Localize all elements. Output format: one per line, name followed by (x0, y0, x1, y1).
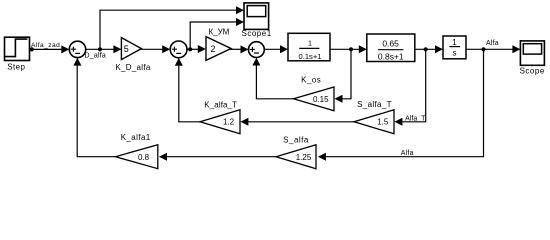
wire S3 to transfer function TF1 (264, 45, 288, 53)
gain K_os value 0.15 (294, 76, 335, 111)
wire S1 to gain K_D_alfa, label D_alfa (85, 45, 122, 59)
gain S_alfa value 1.25 (276, 136, 316, 169)
wire branch D_alfa up to Scope1 input 1 (100, 6, 244, 49)
wire TF2 to integrator (415, 45, 443, 53)
svg-text:1.2: 1.2 (223, 118, 235, 127)
wire branch after S2 up to Scope1 input 2 (190, 18, 244, 49)
wire S_alfa_T to gain K_alfa_T (240, 118, 354, 126)
transfer function TF2 0.65/(0.8s+1) (367, 34, 415, 62)
svg-text:K_alfa_T: K_alfa_T (204, 101, 237, 110)
svg-text:1.5: 1.5 (377, 118, 389, 127)
wire K_alfa_T output to sum S2 bottom input (175, 58, 200, 122)
svg-text:K_os: K_os (301, 76, 321, 85)
wire K_D_alfa to sum S2 (141, 45, 170, 53)
wire integrator to Scope, label Alfa (466, 40, 520, 53)
scope block Scope1 (242, 3, 272, 38)
svg-text:0.8: 0.8 (138, 153, 150, 162)
node D_alfa branch junction (98, 47, 102, 51)
gain K_alfa1 value 0.8 (116, 133, 158, 169)
wire tap from node after TF1 down into gain K_os (335, 49, 352, 103)
svg-text:Step: Step (7, 63, 25, 72)
svg-text:D_alfa: D_alfa (85, 53, 106, 60)
svg-text:S_alfa_T: S_alfa_T (357, 100, 392, 109)
svg-text:1: 1 (308, 39, 312, 48)
integrator block 1/s (443, 36, 466, 59)
sum junction S1 (69, 41, 85, 57)
wire K_alfa1 output to sum S1 bottom input (73, 58, 115, 157)
sum junction S2 (170, 41, 187, 58)
node tap to S_alfa_T (424, 47, 428, 51)
svg-text:К_УМ: К_УМ (208, 27, 229, 36)
svg-text:s: s (453, 49, 457, 58)
svg-text:1: 1 (452, 38, 457, 47)
gain K_D_alfa value 5 (115, 38, 151, 72)
svg-text:K_D_alfa: K_D_alfa (115, 63, 151, 72)
svg-text:S_alfa: S_alfa (283, 136, 309, 145)
svg-text:0.65: 0.65 (382, 39, 399, 49)
svg-text:K_alfa1: K_alfa1 (121, 133, 151, 142)
svg-text:0.15: 0.15 (313, 95, 329, 104)
svg-text:Scope: Scope (520, 67, 545, 76)
step source block Step (5, 37, 30, 71)
wire K_os output to sum S3 bottom input (252, 58, 293, 99)
node tap to S_alfa (Alfa output) (481, 47, 485, 51)
svg-text:Alfa_T: Alfa_T (405, 115, 426, 122)
wire K_UM to sum S3 (231, 45, 249, 53)
wire tap from Alfa node down into gain S_alfa, label Alfa (318, 49, 484, 160)
node branch after S2 (188, 47, 192, 51)
svg-text:2: 2 (210, 44, 215, 54)
svg-text:1.25: 1.25 (296, 153, 312, 162)
sum junction S3 (249, 42, 265, 58)
svg-text:Alfa: Alfa (401, 150, 414, 157)
svg-text:0.8s+1: 0.8s+1 (378, 51, 404, 61)
wire Step to sum S1, label Alfa_zad (30, 42, 70, 53)
svg-text:Scope1: Scope1 (242, 29, 272, 38)
node Alfa_zad (output port dot of Step) (30, 47, 34, 51)
svg-text:5: 5 (124, 44, 129, 54)
wire S_alfa to gain K_alfa1 (159, 153, 276, 161)
scope block Scope (520, 41, 545, 76)
gain K_alfa_T value 1.2 (200, 101, 240, 134)
svg-text:0.1s+1: 0.1s+1 (298, 52, 321, 61)
node tap to K_os (349, 47, 353, 51)
gain S_alfa_T value 1.5 (354, 100, 394, 134)
svg-text:Alfa: Alfa (486, 40, 499, 47)
gain K_UM value 2 (206, 27, 231, 60)
transfer function TF1 1/(0.1s+1) (288, 33, 330, 61)
wire S2 to gain K_UM (187, 45, 206, 53)
wire tap from node after TF2 down into gain S_alfa_T, label Alfa_T (394, 49, 426, 126)
wire TF1 to transfer function TF2 (330, 45, 367, 53)
svg-text:Alfa_zad: Alfa_zad (31, 42, 60, 49)
